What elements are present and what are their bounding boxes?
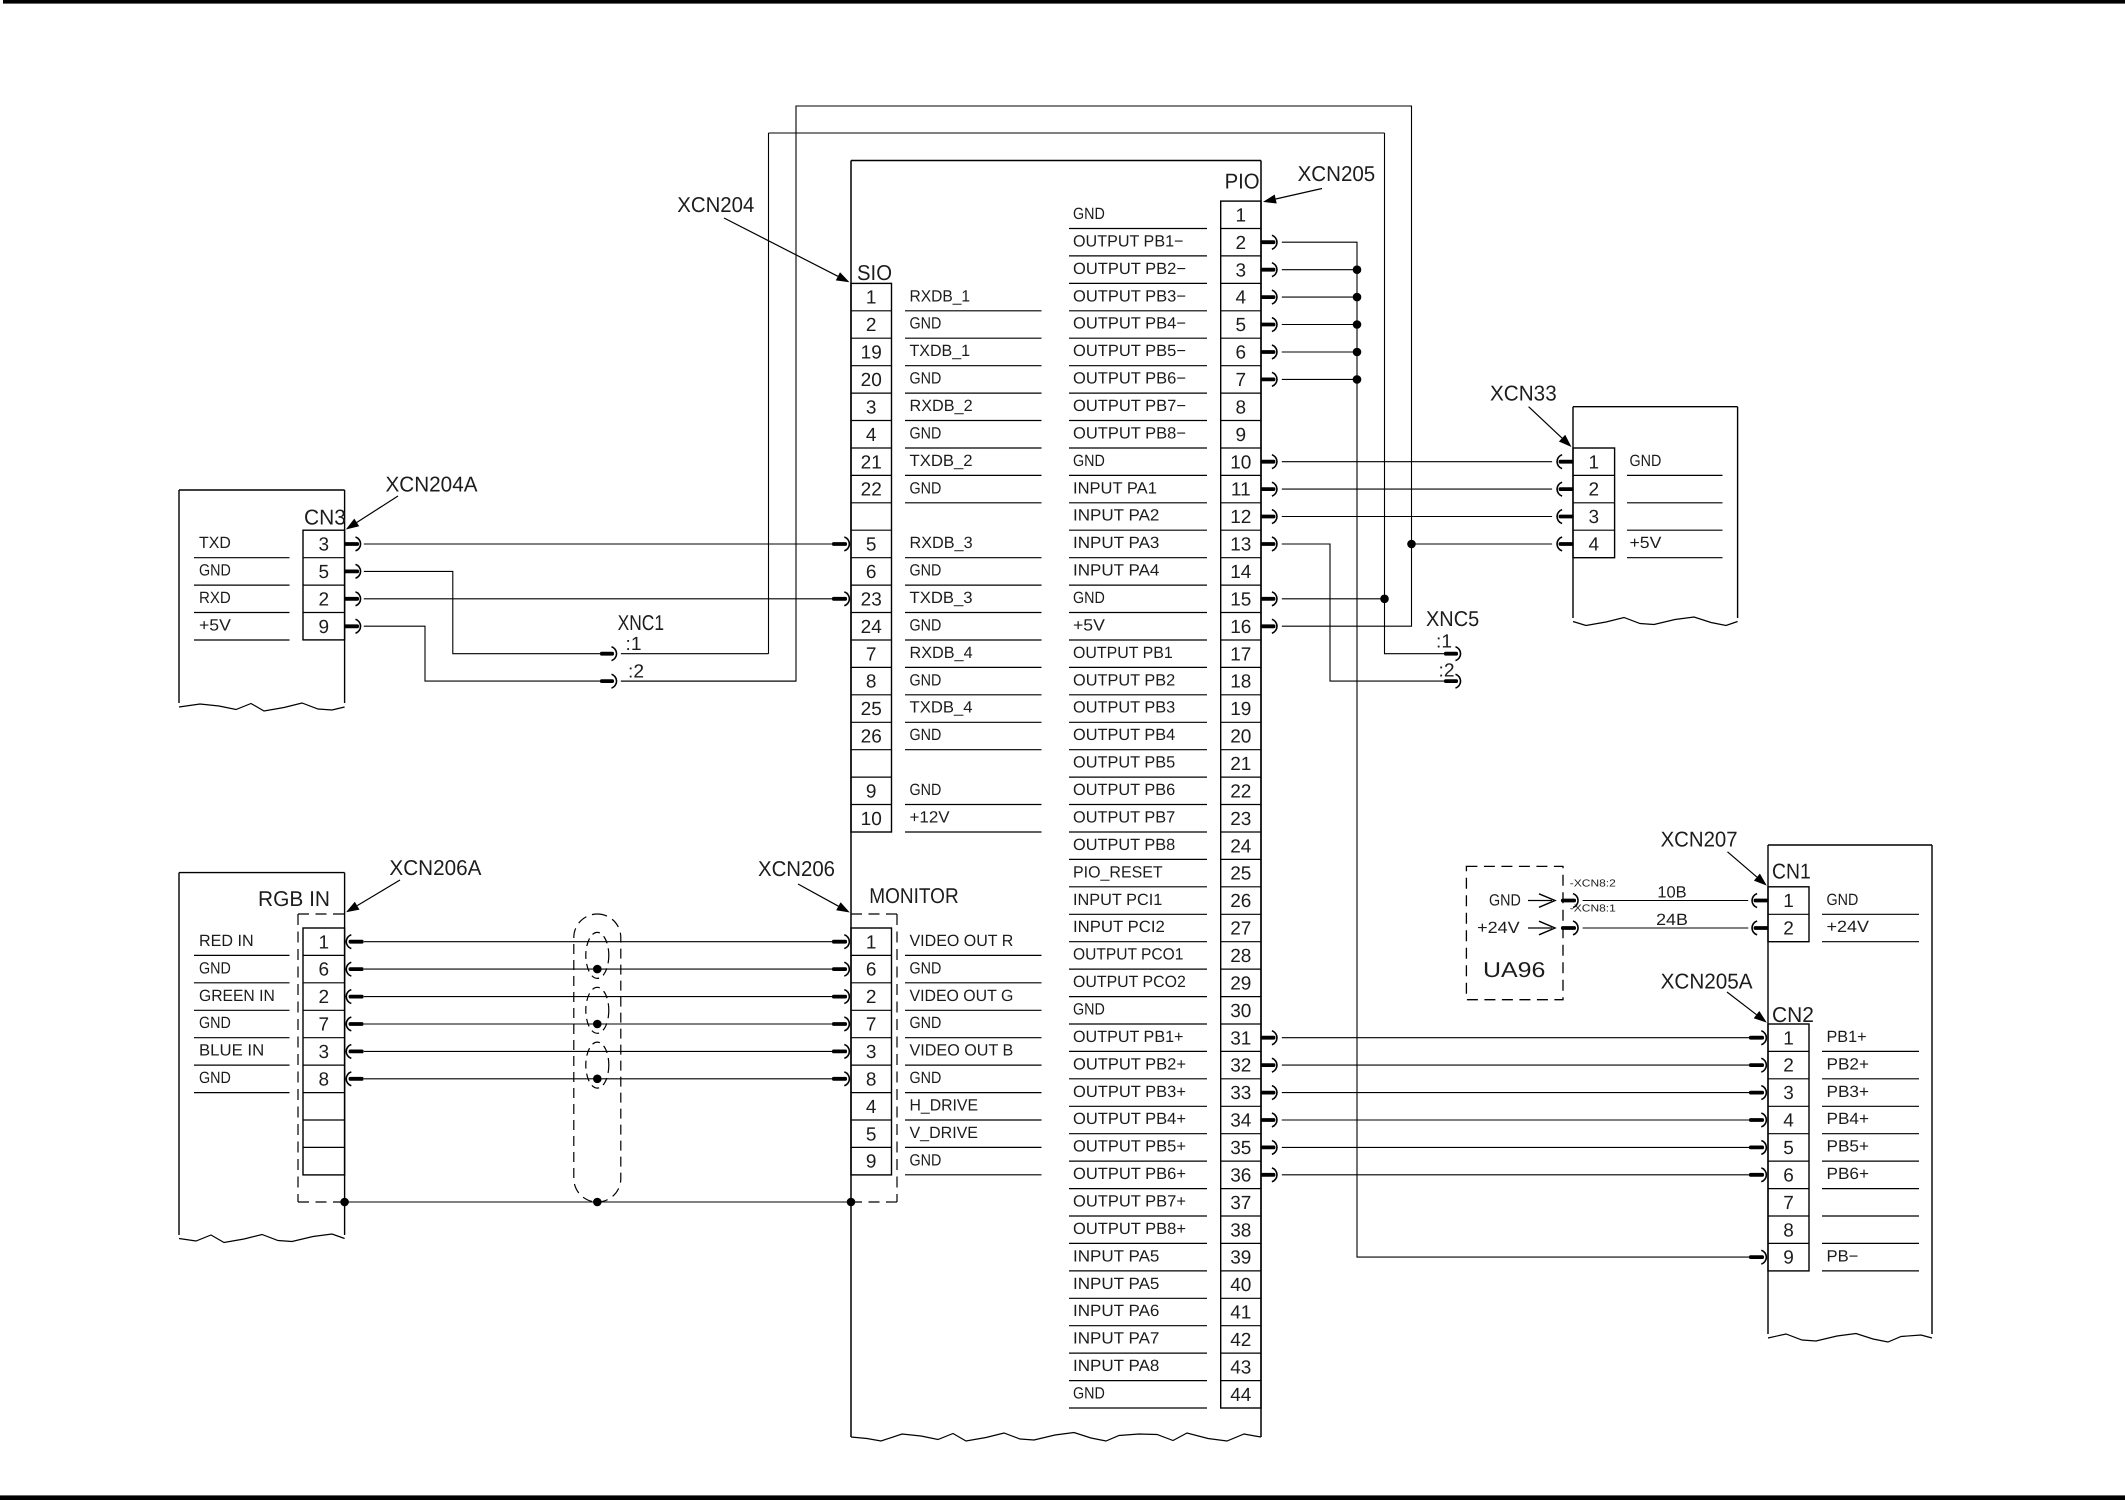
svg-text:INPUT PA7: INPUT PA7: [1073, 1330, 1159, 1348]
svg-text:35: 35: [1230, 1138, 1251, 1159]
svg-text:3: 3: [1783, 1083, 1794, 1104]
svg-text:+5V: +5V: [1073, 617, 1105, 635]
svg-text:V_DRIVE: V_DRIVE: [910, 1124, 979, 1142]
svg-text::2: :2: [1439, 661, 1455, 682]
svg-text:TXDB_1: TXDB_1: [910, 342, 971, 360]
svg-text:43: 43: [1230, 1358, 1251, 1379]
svg-text:3: 3: [319, 1042, 330, 1063]
svg-text:PB4+: PB4+: [1827, 1110, 1870, 1128]
svg-text:TXD: TXD: [199, 534, 231, 552]
svg-text:5: 5: [319, 562, 330, 583]
svg-text:2: 2: [1783, 919, 1794, 940]
svg-text:24B: 24B: [1656, 911, 1688, 929]
svg-text:22: 22: [1230, 781, 1251, 802]
svg-text:28: 28: [1230, 946, 1251, 967]
svg-text:GREEN IN: GREEN IN: [199, 987, 275, 1005]
svg-text:RXDB_3: RXDB_3: [910, 534, 973, 552]
svg-text:13: 13: [1230, 535, 1251, 556]
svg-text:XCN206: XCN206: [758, 857, 835, 881]
svg-text::1: :1: [1436, 632, 1452, 653]
svg-text:GND: GND: [910, 959, 942, 977]
svg-text:CN3: CN3: [304, 506, 346, 530]
svg-text:44: 44: [1230, 1385, 1252, 1406]
svg-text:GND: GND: [1073, 452, 1105, 470]
svg-text::1: :1: [626, 634, 642, 655]
svg-text:14: 14: [1230, 562, 1252, 583]
svg-text:XCN204A: XCN204A: [386, 472, 479, 496]
svg-text:1: 1: [1236, 205, 1247, 226]
svg-text:24: 24: [861, 617, 883, 638]
svg-text:INPUT PCI2: INPUT PCI2: [1073, 918, 1165, 936]
svg-text:9: 9: [1783, 1248, 1794, 1269]
svg-text:1: 1: [319, 932, 330, 953]
svg-text:GND: GND: [910, 617, 942, 635]
svg-text:5: 5: [866, 535, 877, 556]
svg-text:3: 3: [866, 397, 877, 418]
svg-text:5: 5: [866, 1124, 877, 1145]
svg-text:VIDEO OUT G: VIDEO OUT G: [910, 987, 1014, 1005]
svg-text:GND: GND: [910, 1069, 942, 1087]
svg-text:21: 21: [861, 452, 882, 473]
svg-text:6: 6: [319, 960, 330, 981]
svg-text:16: 16: [1230, 617, 1251, 638]
svg-text:-XCN8:2: -XCN8:2: [1570, 879, 1616, 890]
svg-text:3: 3: [866, 1042, 877, 1063]
svg-text:BLUE IN: BLUE IN: [199, 1042, 264, 1060]
svg-text:OUTPUT PB7: OUTPUT PB7: [1073, 809, 1175, 827]
svg-text:XCN205A: XCN205A: [1661, 969, 1754, 993]
svg-text:10B: 10B: [1657, 883, 1686, 901]
svg-text:3: 3: [319, 535, 330, 556]
svg-text:GND: GND: [910, 562, 942, 580]
svg-text:1: 1: [866, 932, 877, 953]
svg-text:OUTPUT PB3+: OUTPUT PB3+: [1073, 1083, 1186, 1101]
svg-text:VIDEO OUT R: VIDEO OUT R: [910, 932, 1014, 950]
svg-text:5: 5: [1236, 315, 1247, 336]
svg-text:OUTPUT PB4+: OUTPUT PB4+: [1073, 1110, 1186, 1128]
svg-text:6: 6: [1783, 1165, 1794, 1186]
svg-text:GND: GND: [1630, 452, 1662, 470]
svg-text:OUTPUT PCO2: OUTPUT PCO2: [1073, 973, 1186, 991]
svg-text:OUTPUT PB1: OUTPUT PB1: [1073, 644, 1173, 662]
svg-text:GND: GND: [910, 1151, 942, 1169]
svg-text:4: 4: [866, 1097, 877, 1118]
svg-text:OUTPUT PB3−: OUTPUT PB3−: [1073, 287, 1186, 305]
svg-text:INPUT PA3: INPUT PA3: [1073, 534, 1159, 552]
svg-text:GND: GND: [910, 781, 942, 799]
svg-text:4: 4: [1589, 535, 1600, 556]
svg-text:OUTPUT PB6+: OUTPUT PB6+: [1073, 1165, 1186, 1183]
svg-text:20: 20: [861, 370, 882, 391]
svg-text:CN1: CN1: [1772, 860, 1811, 884]
svg-text:19: 19: [861, 343, 882, 364]
svg-text:2: 2: [1236, 233, 1247, 254]
svg-text:8: 8: [319, 1069, 330, 1090]
svg-text:INPUT PA4: INPUT PA4: [1073, 562, 1159, 580]
svg-text:+24V: +24V: [1477, 919, 1520, 937]
svg-text:INPUT PA2: INPUT PA2: [1073, 507, 1159, 525]
svg-text:27: 27: [1230, 919, 1251, 940]
svg-text:37: 37: [1230, 1193, 1251, 1214]
svg-text:8: 8: [1783, 1220, 1794, 1241]
svg-text:2: 2: [866, 987, 877, 1008]
svg-text:2: 2: [1589, 480, 1600, 501]
svg-text:GND: GND: [199, 562, 231, 580]
svg-text:OUTPUT PB4−: OUTPUT PB4−: [1073, 315, 1186, 333]
svg-text:CN2: CN2: [1772, 1003, 1814, 1027]
svg-text:4: 4: [1783, 1111, 1794, 1132]
svg-text:36: 36: [1230, 1165, 1251, 1186]
svg-text:15: 15: [1230, 589, 1251, 610]
svg-text:2: 2: [319, 987, 330, 1008]
svg-text:OUTPUT PB5: OUTPUT PB5: [1073, 754, 1175, 772]
svg-text:12: 12: [1230, 507, 1251, 528]
svg-text:RXDB_4: RXDB_4: [910, 644, 973, 662]
svg-text:TXDB_4: TXDB_4: [910, 699, 973, 717]
svg-text:5: 5: [1783, 1138, 1794, 1159]
svg-text:TXDB_3: TXDB_3: [910, 589, 973, 607]
svg-text:8: 8: [866, 1069, 877, 1090]
svg-text:SIO: SIO: [857, 261, 892, 285]
svg-text:OUTPUT PB5+: OUTPUT PB5+: [1073, 1138, 1186, 1156]
svg-text:PIO: PIO: [1225, 169, 1260, 193]
svg-text:34: 34: [1230, 1111, 1252, 1132]
svg-text:19: 19: [1230, 699, 1251, 720]
svg-text:18: 18: [1230, 672, 1251, 693]
svg-text:RED IN: RED IN: [199, 932, 254, 950]
svg-text:UA96: UA96: [1483, 958, 1545, 982]
svg-text:+24V: +24V: [1827, 918, 1870, 936]
svg-text:GND: GND: [910, 671, 942, 689]
svg-text:10: 10: [1230, 452, 1251, 473]
svg-text:22: 22: [861, 480, 882, 501]
svg-text:26: 26: [861, 727, 882, 748]
svg-text:GND: GND: [1827, 891, 1859, 909]
svg-text:6: 6: [1236, 343, 1247, 364]
svg-text:29: 29: [1230, 973, 1251, 994]
svg-text:2: 2: [1783, 1056, 1794, 1077]
svg-text:1: 1: [1589, 452, 1600, 473]
svg-text:25: 25: [861, 699, 882, 720]
svg-text:33: 33: [1230, 1083, 1251, 1104]
svg-text:42: 42: [1230, 1330, 1251, 1351]
svg-text:9: 9: [866, 781, 877, 802]
svg-text:17: 17: [1230, 644, 1251, 665]
svg-text:1: 1: [866, 288, 877, 309]
svg-text:-XCN8:1: -XCN8:1: [1570, 904, 1616, 915]
svg-text:H_DRIVE: H_DRIVE: [910, 1097, 979, 1115]
svg-text:25: 25: [1230, 864, 1251, 885]
svg-text:3: 3: [1589, 507, 1600, 528]
svg-text:23: 23: [1230, 809, 1251, 830]
svg-text:PB1+: PB1+: [1827, 1028, 1867, 1046]
svg-text:OUTPUT PB4: OUTPUT PB4: [1073, 726, 1175, 744]
svg-text:XCN205: XCN205: [1298, 162, 1376, 186]
svg-text:7: 7: [1236, 370, 1247, 391]
svg-text:OUTPUT PB8−: OUTPUT PB8−: [1073, 424, 1186, 442]
svg-text:3: 3: [1236, 260, 1247, 281]
svg-text:XCN33: XCN33: [1490, 381, 1557, 405]
svg-text:1: 1: [1783, 1028, 1794, 1049]
svg-text:OUTPUT PB2: OUTPUT PB2: [1073, 671, 1175, 689]
svg-text:21: 21: [1230, 754, 1251, 775]
svg-text:RXDB_2: RXDB_2: [910, 397, 973, 415]
svg-text:+5V: +5V: [1630, 534, 1662, 552]
svg-text:GND: GND: [1073, 1385, 1105, 1403]
svg-text:10: 10: [861, 809, 882, 830]
svg-text:TXDB_2: TXDB_2: [910, 452, 973, 470]
svg-text:PIO_RESET: PIO_RESET: [1073, 863, 1163, 881]
svg-text:23: 23: [861, 589, 882, 610]
svg-text:6: 6: [866, 960, 877, 981]
svg-text:INPUT PA8: INPUT PA8: [1073, 1357, 1159, 1375]
svg-text:XCN206A: XCN206A: [389, 856, 482, 880]
svg-text:OUTPUT PB3: OUTPUT PB3: [1073, 699, 1175, 717]
svg-text:32: 32: [1230, 1056, 1251, 1077]
svg-text:GND: GND: [910, 370, 942, 388]
svg-text:PB6+: PB6+: [1827, 1165, 1870, 1183]
svg-text:OUTPUT PB6−: OUTPUT PB6−: [1073, 370, 1186, 388]
svg-text:OUTPUT PB1−: OUTPUT PB1−: [1073, 232, 1184, 250]
svg-text:RXDB_1: RXDB_1: [910, 287, 971, 305]
svg-text:GND: GND: [199, 1069, 231, 1087]
svg-text:RXD: RXD: [199, 589, 231, 607]
svg-text:1: 1: [1783, 891, 1794, 912]
svg-text:INPUT PA1: INPUT PA1: [1073, 479, 1157, 497]
svg-text:OUTPUT PB7+: OUTPUT PB7+: [1073, 1193, 1186, 1211]
svg-text:7: 7: [1783, 1193, 1794, 1214]
svg-text:7: 7: [866, 644, 877, 665]
svg-text:PB3+: PB3+: [1827, 1083, 1870, 1101]
svg-text:+12V: +12V: [910, 809, 950, 827]
svg-text:VIDEO OUT B: VIDEO OUT B: [910, 1042, 1014, 1060]
svg-text:40: 40: [1230, 1275, 1251, 1296]
svg-text:20: 20: [1230, 727, 1251, 748]
svg-text:39: 39: [1230, 1248, 1251, 1269]
svg-text:PB5+: PB5+: [1827, 1138, 1870, 1156]
svg-text:GND: GND: [1073, 205, 1105, 223]
svg-text:XNC5: XNC5: [1426, 607, 1479, 631]
svg-text:7: 7: [319, 1015, 330, 1036]
svg-text:2: 2: [319, 589, 330, 610]
svg-text:+5V: +5V: [199, 617, 231, 635]
svg-text:OUTPUT PB6: OUTPUT PB6: [1073, 781, 1175, 799]
svg-text:38: 38: [1230, 1220, 1251, 1241]
svg-text:XNC1: XNC1: [618, 611, 664, 635]
svg-text:XCN204: XCN204: [677, 193, 754, 217]
svg-text:GND: GND: [199, 1014, 231, 1032]
svg-text:OUTPUT PB2+: OUTPUT PB2+: [1073, 1055, 1186, 1073]
svg-text:GND: GND: [199, 959, 231, 977]
svg-text:GND: GND: [1073, 1001, 1105, 1019]
svg-text:INPUT PCI1: INPUT PCI1: [1073, 891, 1162, 909]
svg-text:6: 6: [866, 562, 877, 583]
svg-text:OUTPUT PB2−: OUTPUT PB2−: [1073, 260, 1186, 278]
svg-text:PB−: PB−: [1827, 1247, 1859, 1265]
svg-text:9: 9: [1236, 425, 1247, 446]
svg-text:INPUT PA5: INPUT PA5: [1073, 1275, 1159, 1293]
svg-text:GND: GND: [1073, 589, 1105, 607]
svg-text:8: 8: [866, 672, 877, 693]
svg-text:GND: GND: [910, 315, 942, 333]
svg-text:OUTPUT PB8: OUTPUT PB8: [1073, 836, 1175, 854]
svg-text:9: 9: [319, 617, 330, 638]
svg-text:GND: GND: [910, 479, 942, 497]
svg-text:GND: GND: [1489, 892, 1521, 910]
svg-text:INPUT PA6: INPUT PA6: [1073, 1302, 1159, 1320]
svg-text:31: 31: [1230, 1028, 1251, 1049]
svg-text:8: 8: [1236, 397, 1247, 418]
svg-text:41: 41: [1230, 1303, 1251, 1324]
svg-text:RGB IN: RGB IN: [258, 887, 330, 911]
svg-text:GND: GND: [910, 1014, 942, 1032]
svg-text:PB2+: PB2+: [1827, 1055, 1870, 1073]
svg-text:26: 26: [1230, 891, 1251, 912]
svg-text:24: 24: [1230, 836, 1252, 857]
svg-text:OUTPUT PCO1: OUTPUT PCO1: [1073, 946, 1183, 964]
svg-text:4: 4: [1236, 288, 1247, 309]
svg-text:GND: GND: [910, 424, 942, 442]
svg-text:GND: GND: [910, 726, 942, 744]
svg-text:XCN207: XCN207: [1661, 827, 1738, 851]
svg-text:MONITOR: MONITOR: [869, 884, 958, 908]
svg-text:30: 30: [1230, 1001, 1251, 1022]
svg-text:9: 9: [866, 1152, 877, 1173]
svg-text:2: 2: [866, 315, 877, 336]
svg-text:INPUT PA5: INPUT PA5: [1073, 1247, 1159, 1265]
svg-text::2: :2: [628, 662, 644, 683]
svg-text:7: 7: [866, 1015, 877, 1036]
svg-text:4: 4: [866, 425, 877, 446]
svg-text:OUTPUT PB5−: OUTPUT PB5−: [1073, 342, 1186, 360]
svg-text:OUTPUT PB1+: OUTPUT PB1+: [1073, 1028, 1184, 1046]
svg-text:OUTPUT PB7−: OUTPUT PB7−: [1073, 397, 1186, 415]
svg-text:11: 11: [1231, 480, 1251, 501]
svg-text:OUTPUT PB8+: OUTPUT PB8+: [1073, 1220, 1186, 1238]
